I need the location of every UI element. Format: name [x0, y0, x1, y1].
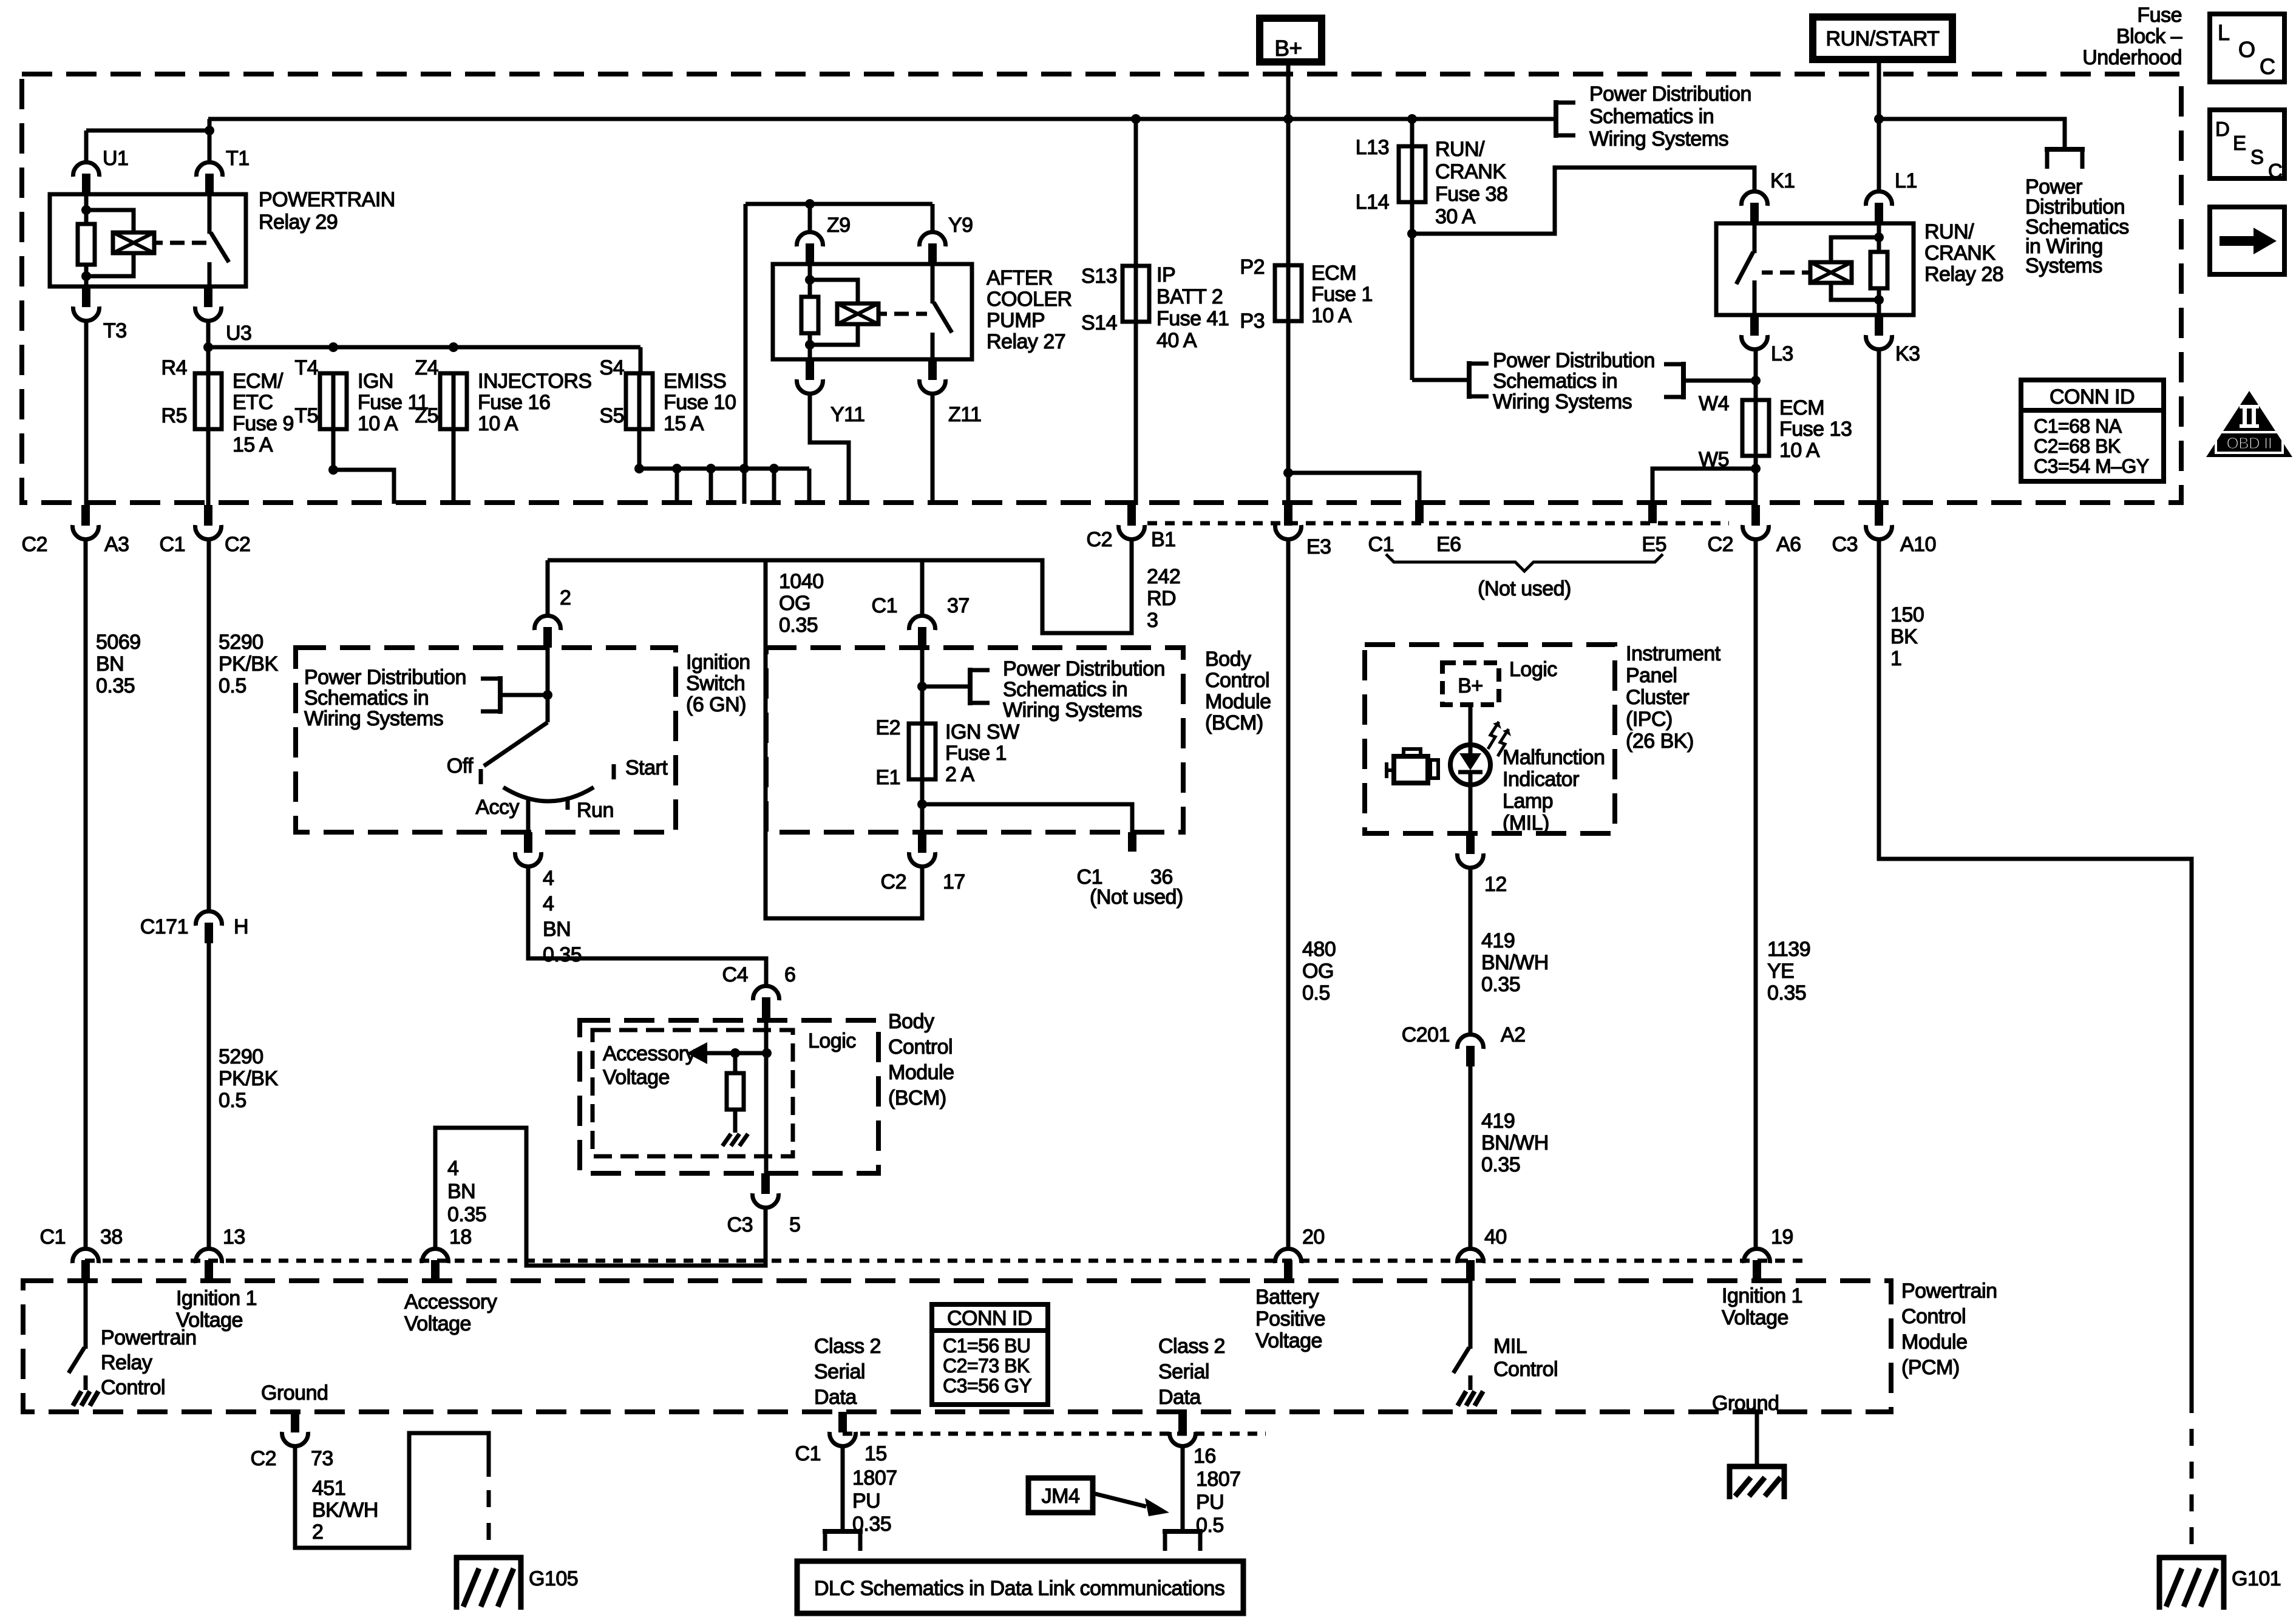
svg-text:(Not used): (Not used) [1478, 577, 1571, 600]
node ignition switch junction [543, 690, 552, 700]
svg-text:C2: C2 [251, 1447, 276, 1470]
coil relay27 solenoid [837, 303, 878, 324]
wire RUN/START drop [1877, 63, 1881, 119]
ground PCM right exit [1755, 1412, 1759, 1464]
svg-text:Serial: Serial [814, 1360, 865, 1383]
ground BCM internal [722, 1134, 731, 1146]
svg-text:38: 38 [100, 1225, 123, 1249]
svg-text:C2: C2 [22, 533, 47, 556]
svg-text:PU: PU [852, 1490, 880, 1513]
lamp MIL LED circle [1450, 745, 1490, 785]
node relay27 coil top junction [805, 275, 815, 285]
node logic junction right [762, 1048, 772, 1058]
wire to pin36 [922, 804, 1132, 832]
coil relay29 solenoid [113, 232, 154, 253]
rotary arc ignition switch [503, 787, 594, 801]
svg-text:A2: A2 [1501, 1023, 1526, 1046]
CONN ID table (fuse block) [2021, 380, 2164, 481]
svg-text:CONN ID: CONN ID [2050, 385, 2135, 408]
svg-text:480: 480 [1302, 938, 1336, 961]
wire 1040 OG riser [766, 560, 922, 918]
node fuse11 jog [328, 465, 338, 475]
connector pin 40 [1466, 1260, 1475, 1281]
connector pin 18 [431, 1260, 440, 1281]
svg-text:BN: BN [543, 918, 571, 941]
off-page reference return (W4 side) [1681, 362, 1686, 399]
node fuse row tap Fuse 11 [328, 342, 338, 352]
wire fuse distribution row [208, 345, 640, 350]
svg-text:419: 419 [1481, 929, 1515, 952]
svg-text:Module: Module [1901, 1331, 1968, 1354]
svg-text:Wiring Systems: Wiring Systems [304, 707, 443, 730]
svg-text:U1: U1 [103, 147, 128, 170]
wire EMISS fuse to comb [637, 429, 642, 469]
connector exit C2/A6 [1751, 505, 1760, 526]
wire 4 BN to BCM C4 [528, 867, 766, 985]
wire W4 link [1683, 379, 1756, 383]
connector pin C4/6 [762, 997, 770, 1018]
svg-text:4: 4 [447, 1157, 458, 1180]
wire BCM logic feed [764, 1018, 769, 1156]
svg-text:(BCM): (BCM) [1205, 711, 1263, 734]
wire pin2 drop [546, 560, 550, 615]
connector pin C1/36 (not used) [1128, 832, 1136, 852]
connector pin U1 [82, 174, 90, 194]
ignition switch box [296, 648, 676, 832]
DESC legend box [2210, 110, 2284, 178]
svg-text:Data: Data [1158, 1386, 1201, 1409]
PCM box [23, 1281, 1891, 1412]
svg-text:BN: BN [447, 1180, 475, 1203]
svg-text:15 A: 15 A [233, 433, 273, 456]
svg-text:15: 15 [864, 1442, 887, 1465]
wire relay29 coil stub [154, 241, 163, 245]
node U1 branch junction [205, 126, 214, 135]
svg-text:T3: T3 [103, 319, 127, 342]
svg-text:C2: C2 [881, 870, 906, 893]
wire logic horizontal [704, 1051, 767, 1056]
node relay29 coil bottom junction [81, 271, 91, 281]
connector pin 20 [1284, 1260, 1292, 1281]
svg-text:C201: C201 [1402, 1023, 1450, 1046]
wire Y9 drop [931, 204, 935, 232]
svg-text:Fuse 41: Fuse 41 [1156, 307, 1229, 330]
svg-text:COOLER: COOLER [987, 288, 1072, 311]
svg-text:BN/WH: BN/WH [1481, 1131, 1549, 1154]
svg-text:1040: 1040 [779, 570, 824, 593]
svg-text:G105: G105 [529, 1567, 578, 1590]
connector pin C3/5 [761, 1173, 770, 1194]
off-page terminal DLC left [823, 1529, 863, 1534]
wire RUN/START to off-page reference [1879, 119, 2065, 147]
connector pin T3 [82, 286, 90, 307]
fuse F38 RUN/CRANK Fuse 38 30A [1410, 145, 1415, 203]
wire relay27 coil pin [808, 264, 812, 297]
svg-text:0.35: 0.35 [779, 614, 818, 637]
connector exit C1/15 [838, 1412, 847, 1432]
svg-text:C: C [2260, 54, 2275, 79]
svg-text:Control: Control [1901, 1305, 1966, 1328]
off-page reference Power Distribution (center) [1467, 361, 1472, 399]
svg-text:Fuse 16: Fuse 16 [478, 391, 550, 414]
wire after-cooler feed riser [744, 204, 748, 469]
wire W5 to E5 [1652, 469, 1756, 505]
svg-text:EMISS: EMISS [664, 370, 726, 393]
wire top bus [208, 117, 1556, 121]
connector pin U3 [204, 286, 212, 307]
svg-text:Y9: Y9 [948, 214, 973, 237]
wire relay28 coil stub [1802, 271, 1810, 275]
svg-text:T5: T5 [294, 404, 318, 427]
svg-text:L1: L1 [1895, 169, 1917, 192]
wire relay29 resistor bottom [84, 265, 89, 286]
svg-text:C1: C1 [872, 594, 897, 617]
svg-text:P2: P2 [1240, 256, 1265, 279]
svg-text:O: O [2238, 37, 2255, 62]
wire fuse41 to border [1134, 322, 1138, 505]
svg-text:Body: Body [1205, 648, 1251, 671]
svg-text:Fuse 38: Fuse 38 [1435, 183, 1507, 206]
svg-text:JM4: JM4 [1042, 1485, 1080, 1508]
svg-text:20: 20 [1302, 1225, 1325, 1249]
svg-text:CRANK: CRANK [1435, 160, 1506, 183]
node relay27 coil bottom junction [805, 340, 815, 350]
wire 1139 YE to PCM 19 [1754, 540, 1758, 1248]
wire fuse9 to exit [206, 429, 211, 505]
connector pin L3 [1750, 315, 1759, 336]
connector pin 12 [1466, 833, 1475, 854]
svg-text:242: 242 [1147, 565, 1180, 588]
wire 419 BN/WH upper [1469, 869, 1473, 1034]
svg-text:10 A: 10 A [1311, 304, 1352, 327]
svg-text:Block –: Block – [2116, 25, 2182, 48]
svg-text:17: 17 [943, 870, 965, 893]
node logic junction left [730, 1048, 740, 1058]
dashed actuation link relay27 [894, 312, 909, 316]
connector exit C2/A3 [81, 505, 90, 526]
svg-text:40: 40 [1484, 1225, 1507, 1249]
connector pin 19 [1753, 1260, 1761, 1281]
svg-text:5069: 5069 [96, 631, 141, 654]
svg-text:Relay 28: Relay 28 [1924, 263, 2003, 286]
wire relay28 coil pin [1877, 223, 1881, 252]
switch PCM powertrain relay control [84, 1281, 88, 1349]
engine icon check-engine [1394, 756, 1428, 783]
svg-text:P3: P3 [1240, 310, 1265, 333]
BCM logic inner box [593, 1030, 793, 1156]
svg-text:C1: C1 [1368, 533, 1394, 556]
svg-text:B1: B1 [1151, 528, 1176, 551]
wire comb stub 4 [772, 469, 776, 504]
connector exit C2/73 [291, 1412, 299, 1432]
resistor relay28 internal [1870, 252, 1887, 288]
connector row dotted line (BCM C1/C2) [1147, 521, 1729, 526]
BCM lower box [580, 1020, 878, 1173]
node bus junction B+ [1283, 114, 1293, 124]
ground G105 [454, 1555, 523, 1561]
connector C201 pin A2 inline [1466, 1046, 1475, 1066]
svg-text:Battery: Battery [1255, 1286, 1319, 1309]
connector pin E6 (not used) [1415, 505, 1424, 523]
svg-text:Relay 29: Relay 29 [259, 211, 338, 234]
svg-text:BATT 2: BATT 2 [1156, 285, 1223, 308]
connector pin Y9 [928, 243, 937, 264]
svg-text:C2: C2 [1708, 533, 1733, 556]
svg-text:Schematics in: Schematics in [1589, 105, 1714, 128]
svg-text:ECM: ECM [1311, 262, 1356, 285]
wire BCM fuse output [920, 779, 925, 832]
svg-text:Fuse 13: Fuse 13 [1779, 418, 1852, 441]
svg-text:Body: Body [888, 1010, 934, 1033]
connector exit C3/A10 [1875, 505, 1883, 526]
wire MIL lamp output [1469, 785, 1473, 833]
svg-text:BN: BN [96, 653, 124, 676]
OBD II triangle symbol [2206, 391, 2292, 457]
svg-text:Underhood: Underhood [2082, 46, 2182, 69]
svg-text:C: C [2268, 160, 2282, 182]
DLC connector row dotted line [843, 1432, 1266, 1436]
svg-text:C2=68 BK: C2=68 BK [2034, 435, 2121, 457]
svg-text:CONN ID: CONN ID [947, 1307, 1032, 1330]
svg-text:0.35: 0.35 [543, 943, 582, 966]
svg-text:Wiring Systems: Wiring Systems [1589, 127, 1728, 151]
connector pin E5 (not used) [1648, 505, 1657, 523]
connector exit 16 [1178, 1412, 1187, 1432]
svg-text:Wiring Systems: Wiring Systems [1493, 390, 1632, 413]
wire 1807 PU 0.5 [1181, 1447, 1185, 1531]
svg-text:(26 BK): (26 BK) [1626, 730, 1694, 753]
wire fuse38 feed [1410, 119, 1415, 146]
off-page reference Power Distribution (top right) [1554, 100, 1558, 138]
connector pin K3 [1875, 315, 1883, 336]
PCM connector row dotted line [85, 1259, 1809, 1263]
svg-text:BK/WH: BK/WH [312, 1499, 378, 1522]
DLC Schematics reference box [797, 1561, 1243, 1613]
svg-text:Voltage: Voltage [176, 1309, 243, 1332]
svg-text:2: 2 [560, 586, 571, 609]
svg-text:Data: Data [814, 1386, 857, 1409]
svg-text:AFTER: AFTER [987, 266, 1053, 290]
node W5 junction [1751, 464, 1761, 473]
wire after-cooler top link [746, 202, 932, 206]
svg-text:B+: B+ [1274, 36, 1302, 61]
svg-text:Lamp: Lamp [1503, 790, 1553, 813]
wire fuse16 to border [452, 429, 456, 504]
svg-text:G101: G101 [2232, 1567, 2281, 1590]
svg-text:Fuse 10: Fuse 10 [664, 391, 736, 414]
svg-text:12: 12 [1484, 873, 1507, 896]
fuse F13 ECM Fuse 13 10A [1754, 399, 1758, 457]
connector exit E3 [1284, 505, 1292, 526]
node BCM PDS junction [917, 682, 927, 691]
wire 480 OG to PCM 20 [1286, 540, 1291, 1248]
off-page reference Power Distribution (right) [2045, 147, 2085, 152]
connector exit C2/B1 [1127, 505, 1136, 526]
switch relay29 contact [208, 194, 212, 234]
svg-text:Control: Control [1205, 669, 1269, 692]
svg-text:ECM: ECM [1779, 396, 1824, 419]
svg-text:IP: IP [1156, 263, 1175, 286]
svg-text:(IPC): (IPC) [1626, 708, 1673, 731]
svg-text:19: 19 [1771, 1225, 1793, 1249]
svg-text:(6 GN): (6 GN) [686, 693, 746, 716]
resistor relay27 internal [801, 297, 818, 333]
svg-text:S14: S14 [1081, 311, 1117, 334]
wire relay29 coil pin [84, 194, 89, 224]
svg-text:Fuse: Fuse [2137, 4, 2182, 27]
wire C1-37 riser [920, 560, 925, 615]
wire fuse38 to off-page reference [1412, 378, 1469, 382]
svg-text:C1: C1 [40, 1225, 66, 1249]
svg-text:Logic: Logic [1509, 658, 1557, 681]
svg-text:Control: Control [1493, 1358, 1558, 1381]
svg-text:C3=56 GY: C3=56 GY [943, 1375, 1031, 1397]
svg-text:R4: R4 [161, 356, 187, 379]
wire relay29 coil to bottom junction [86, 253, 134, 276]
svg-text:K1: K1 [1770, 169, 1795, 192]
wire 419 BN/WH lower to PCM 40 [1469, 1066, 1473, 1248]
svg-text:L14: L14 [1356, 191, 1389, 214]
svg-text:1: 1 [1890, 647, 1901, 670]
wire Y11 jog to border [810, 395, 849, 504]
off-page terminal DLC right [1163, 1529, 1203, 1534]
svg-text:Switch: Switch [686, 672, 745, 695]
svg-text:Module: Module [888, 1061, 954, 1084]
svg-text:(Not used): (Not used) [1090, 886, 1183, 909]
svg-text:MIL: MIL [1493, 1335, 1527, 1358]
node relay28 coil top junction [1874, 232, 1884, 242]
svg-text:DLC Schematics in Data Link co: DLC Schematics in Data Link communicatio… [814, 1577, 1224, 1600]
wire fuse1 to border [1286, 321, 1291, 505]
svg-text:419: 419 [1481, 1110, 1515, 1133]
contact Off stub [479, 769, 483, 784]
svg-text:30 A: 30 A [1435, 205, 1476, 228]
fuse F1 ECM Fuse 1 10A [1286, 264, 1291, 322]
svg-text:0.35: 0.35 [96, 674, 135, 697]
svg-text:PK/BK: PK/BK [219, 1067, 278, 1090]
wire G105 dashed section [487, 1490, 491, 1554]
wire U1 branch [86, 129, 209, 133]
wire 150 BK to G101 [1879, 540, 2192, 1396]
wire ignition switch common [546, 648, 550, 722]
svg-text:L: L [2218, 20, 2230, 45]
dashed actuation link relay28 [1780, 271, 1795, 275]
wire comb end drop [807, 469, 812, 504]
svg-text:5290: 5290 [219, 631, 263, 654]
svg-text:Fuse 9: Fuse 9 [233, 412, 294, 435]
fuse F16 INJECTORS Fuse 16 10A [452, 372, 456, 430]
svg-text:ECM/: ECM/ [233, 370, 284, 393]
svg-text:E2: E2 [875, 716, 900, 739]
svg-text:Run: Run [577, 799, 614, 822]
svg-text:IGN: IGN [358, 370, 393, 393]
power tag B+ box [1260, 18, 1322, 62]
svg-text:40 A: 40 A [1156, 329, 1197, 352]
wire Z9 drop [808, 204, 812, 232]
node W4 junction [1751, 376, 1761, 385]
svg-text:Voltage: Voltage [1255, 1329, 1322, 1352]
svg-text:Ignition 1: Ignition 1 [1722, 1284, 1802, 1307]
svg-text:CRANK: CRANK [1924, 242, 1995, 265]
svg-text:ETC: ETC [233, 391, 273, 414]
resistor BCM pulldown [733, 1053, 738, 1073]
legend arrow box [2210, 207, 2284, 274]
svg-text:Relay 27: Relay 27 [987, 330, 1065, 353]
wire ignition feed from B1 [548, 540, 1132, 633]
svg-text:POWERTRAIN: POWERTRAIN [259, 188, 395, 211]
svg-text:18: 18 [449, 1225, 472, 1249]
connector pin C1/38 [81, 1260, 90, 1281]
svg-text:1807: 1807 [1196, 1468, 1241, 1491]
svg-text:S: S [2250, 146, 2264, 168]
off-page reference Power Distribution (ignition) [500, 693, 548, 697]
svg-text:R5: R5 [161, 404, 187, 427]
connector pin Y11 [806, 359, 814, 380]
svg-text:Y11: Y11 [830, 403, 864, 426]
svg-text:T4: T4 [294, 356, 318, 379]
svg-text:E: E [2233, 132, 2246, 154]
node fuse row junction U3 [203, 342, 213, 352]
svg-text:C2: C2 [225, 533, 250, 556]
svg-text:73: 73 [311, 1447, 333, 1470]
wire comb stub 2 [709, 469, 713, 504]
svg-text:H: H [234, 915, 248, 938]
svg-text:(BCM): (BCM) [888, 1086, 946, 1110]
svg-text:W4: W4 [1699, 392, 1729, 415]
svg-text:4: 4 [543, 892, 554, 915]
wire relay27 coil return [810, 324, 858, 345]
fuse F9 ECM/ETC Fuse 9 15A [206, 372, 211, 430]
wire comb stub 1 [675, 469, 679, 504]
svg-text:Ignition: Ignition [686, 651, 750, 674]
resistor relay29 internal [78, 224, 95, 265]
arrow Accessory Voltage [687, 1042, 707, 1064]
svg-text:(PCM): (PCM) [1901, 1356, 1960, 1379]
svg-text:Start: Start [625, 756, 668, 779]
svg-text:Positive: Positive [1255, 1307, 1325, 1331]
fuse BCM IGN SW Fuse 1 2A [920, 722, 925, 781]
wire comb stub 3 [742, 469, 747, 504]
svg-text:Control: Control [101, 1376, 165, 1399]
svg-text:451: 451 [312, 1477, 345, 1500]
connector pin Z11 [928, 359, 937, 380]
svg-text:K3: K3 [1895, 342, 1920, 365]
svg-text:RUN/: RUN/ [1435, 138, 1485, 161]
wire relay28 coil branch [1831, 237, 1879, 262]
connector pin T1 [205, 174, 214, 194]
svg-text:Schematics in: Schematics in [1003, 678, 1127, 701]
contact Start tick [612, 764, 616, 779]
connector C171 pin H inline [205, 923, 213, 943]
svg-text:C1: C1 [160, 533, 185, 556]
svg-text:4: 4 [543, 867, 554, 890]
wire B+ to MIL lamp [1469, 705, 1473, 747]
svg-text:Class 2: Class 2 [1158, 1335, 1225, 1358]
wire 1807 PU 0.35 [841, 1447, 845, 1531]
wire fuse13 to border [1754, 456, 1758, 505]
svg-text:Malfunction: Malfunction [1503, 746, 1605, 769]
svg-text:A10: A10 [1900, 533, 1936, 556]
node Z9 junction [805, 199, 815, 209]
svg-text:S13: S13 [1081, 265, 1117, 288]
svg-text:Powertrain: Powertrain [1901, 1280, 1997, 1303]
svg-text:0.35: 0.35 [447, 1203, 486, 1226]
svg-text:RD: RD [1147, 587, 1176, 610]
svg-text:Voltage: Voltage [404, 1312, 471, 1335]
connector pin Z9 [806, 243, 814, 264]
svg-text:Accessory: Accessory [404, 1290, 497, 1314]
off-page reference Power Distribution (BCM) [922, 685, 970, 689]
